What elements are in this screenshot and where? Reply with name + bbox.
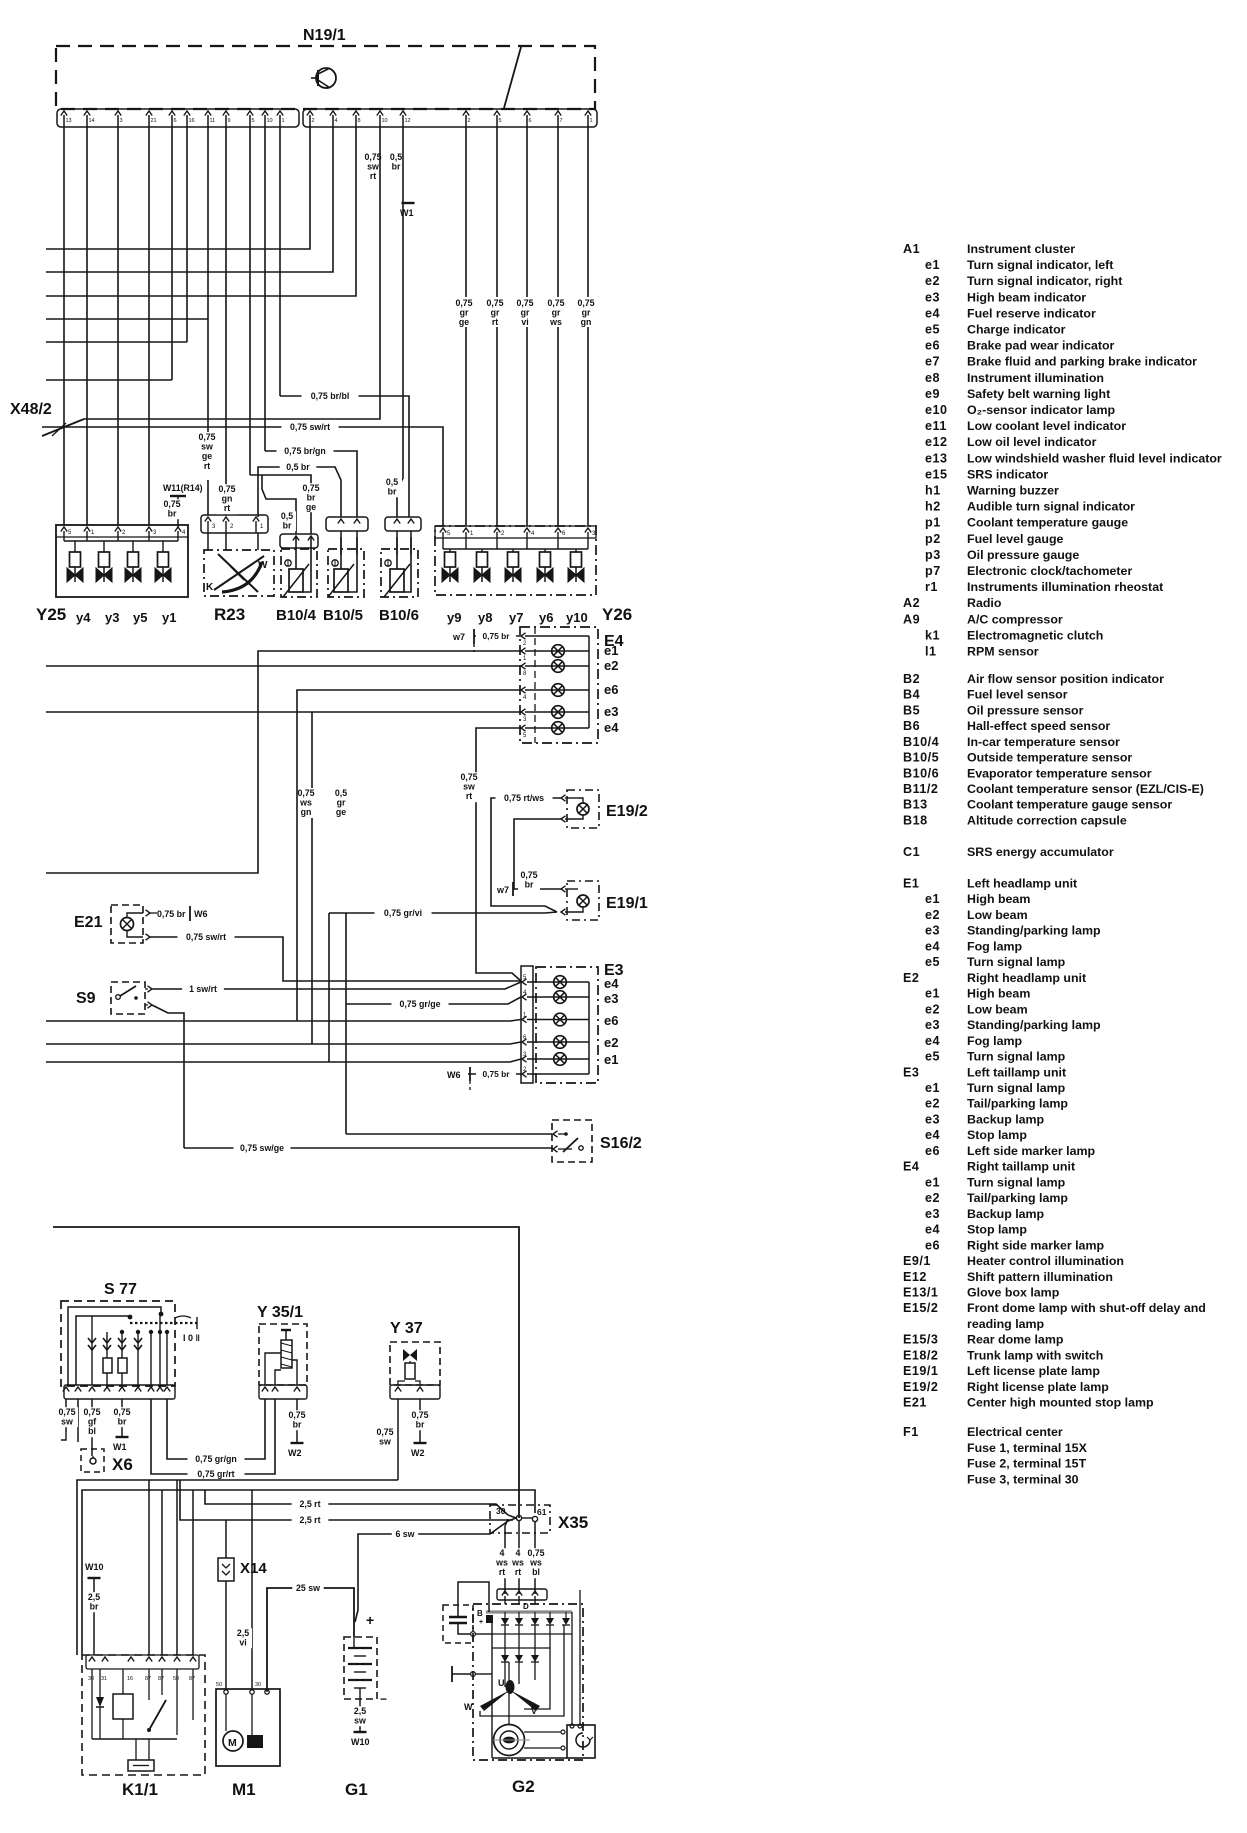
E3 pin 1 row [522, 1016, 527, 1022]
svg-text:Rear dome lamp: Rear dome lamp [967, 1333, 1064, 1347]
svg-text:B10/4: B10/4 [276, 607, 317, 624]
svg-text:0,75: 0,75 [527, 1548, 544, 1558]
N19/1 strip B pin 12 [400, 111, 406, 116]
svg-text:Shift pattern illumination: Shift pattern illumination [967, 1270, 1113, 1284]
svg-text:5: 5 [499, 118, 502, 124]
B10/5 connector [326, 517, 368, 531]
svg-text:Fuse 3, terminal 30: Fuse 3, terminal 30 [967, 1472, 1079, 1486]
wire strip A pin3 to Y25 pin 2 [117, 127, 119, 525]
E4 pin 8 row [521, 663, 526, 669]
svg-text:0,75: 0,75 [547, 298, 564, 308]
svg-text:sw: sw [367, 162, 379, 172]
wire 2,5 rt upper [205, 1490, 508, 1515]
N19/1 strip A pin 6 [169, 111, 175, 116]
wire strip A pin11 to bus y396 [279, 127, 281, 396]
wire strip A pin2 to Y25 pin 1 [86, 127, 88, 525]
svg-text:e1: e1 [925, 258, 940, 272]
svg-text:2,5: 2,5 [88, 1592, 100, 1602]
svg-text:Coolant temperature sensor (EZ: Coolant temperature sensor (EZL/CIS-E) [967, 782, 1204, 796]
svg-text:2,5 rt: 2,5 rt [299, 1515, 320, 1525]
Y25 pin 3 [146, 527, 152, 532]
svg-text:e3: e3 [604, 704, 618, 719]
svg-text:0,75: 0,75 [113, 1407, 130, 1417]
svg-text:e2: e2 [925, 1097, 940, 1111]
svg-text:rt: rt [224, 503, 230, 513]
svg-text:E2: E2 [903, 971, 919, 985]
wire to E3 e6 from left [46, 1020, 521, 1022]
svg-text:l1: l1 [925, 645, 937, 659]
svg-text:B6: B6 [903, 719, 920, 733]
svg-text:0,5: 0,5 [386, 477, 398, 487]
svg-text:E9/1: E9/1 [903, 1254, 931, 1268]
K1/1 fuse element [128, 1760, 154, 1771]
Y35/1 connector row [259, 1385, 307, 1399]
wire strip A pin10 to bus y451 [264, 127, 266, 451]
svg-text:Front dome lamp with shut-off: Front dome lamp with shut-off delay and [967, 1301, 1206, 1315]
svg-text:F1: F1 [903, 1425, 919, 1439]
svg-text:Electromagnetic clutch: Electromagnetic clutch [967, 628, 1103, 642]
svg-text:X48/2: X48/2 [10, 401, 52, 418]
svg-text:SRS indicator: SRS indicator [967, 467, 1048, 481]
wire 0,75 gr rt from strip B to Y26 [496, 127, 498, 526]
svg-text:Standing/parking lamp: Standing/parking lamp [967, 924, 1101, 938]
svg-text:E19/1: E19/1 [606, 895, 648, 912]
svg-text:6: 6 [529, 118, 532, 124]
E21 pin1 ground stub 0,75br W6 [127, 913, 143, 918]
svg-text:e12: e12 [925, 435, 948, 449]
svg-text:61: 61 [537, 1507, 547, 1517]
Y26 pin 3 [585, 528, 591, 533]
svg-text:0,75 gr/ge: 0,75 gr/ge [399, 999, 440, 1009]
S9 switch symbol [116, 995, 121, 1000]
svg-text:B10/6: B10/6 [903, 766, 939, 780]
svg-text:e2: e2 [925, 1191, 940, 1205]
svg-text:W1: W1 [400, 208, 414, 218]
wire 25 sw from M1 terminal 30 to battery plus [267, 1588, 354, 1689]
G2 D- wires to regulator [571, 1612, 573, 1725]
svg-text:y3: y3 [105, 610, 119, 625]
svg-text:Air flow sensor position indic: Air flow sensor position indicator [967, 672, 1164, 686]
svg-text:Radio: Radio [967, 596, 1002, 610]
E3 ground stub W6 0,75 br [468, 1073, 521, 1075]
svg-text:e5: e5 [925, 323, 940, 337]
svg-text:Hall-effect speed sensor: Hall-effect speed sensor [967, 719, 1110, 733]
E3 left taillamp dash-dot box [536, 967, 598, 1083]
bus wire y1480 from x77 to Y37 [77, 1480, 398, 1655]
svg-text:Fuel level gauge: Fuel level gauge [967, 532, 1064, 546]
battery G1 ground wire 2,5 sw W10 [359, 1699, 361, 1732]
wire 0,75 gr/vi to E19/1 pin2 [329, 912, 545, 914]
E4 right bus [588, 636, 590, 728]
svg-text:e4: e4 [604, 976, 619, 991]
diagonal partition line inside N19/1 [504, 47, 521, 108]
svg-text:Brake pad wear indicator: Brake pad wear indicator [967, 339, 1115, 353]
svg-text:e6: e6 [604, 1013, 618, 1028]
wire 0,75 rt/ws loop feeding E19 lamps [491, 798, 561, 912]
G2 connector bracket [497, 1589, 547, 1600]
Y26 pin 2 [494, 528, 500, 533]
svg-text:br: br [388, 487, 397, 497]
svg-text:G2: G2 [512, 1777, 535, 1796]
svg-text:sw: sw [201, 442, 213, 452]
svg-text:Trunk lamp with switch: Trunk lamp with switch [967, 1348, 1103, 1362]
svg-text:Left taillamp unit: Left taillamp unit [967, 1065, 1066, 1079]
E19/1 left license plate lamp box [567, 881, 599, 920]
svg-text:e2: e2 [925, 274, 940, 288]
svg-text:e1: e1 [925, 987, 940, 1001]
svg-text:87: 87 [145, 1676, 151, 1682]
svg-text:−: − [380, 1692, 387, 1706]
S16/2 switch box [552, 1120, 592, 1162]
svg-text:Heater control illumination: Heater control illumination [967, 1254, 1124, 1268]
E3 lamp row y1059 [554, 1053, 567, 1066]
svg-text:2,5 rt: 2,5 rt [299, 1499, 320, 1509]
E4 pin 3 row [521, 709, 526, 715]
svg-text:Safety belt warning light: Safety belt warning light [967, 387, 1110, 401]
svg-text:w7: w7 [452, 632, 465, 642]
wire to E4 e1 from R23 via x258 [46, 651, 521, 873]
Y37 pin1 wire 0,75 sw down to bus [397, 1399, 399, 1480]
svg-text:D: D [523, 1602, 529, 1611]
wire strip A pin1 to Y25 pin 5 [63, 127, 65, 525]
G2 capacitor box [443, 1605, 473, 1643]
svg-text:E13/1: E13/1 [903, 1286, 938, 1300]
svg-text:gn: gn [301, 807, 312, 817]
valve block Y26 box [435, 526, 596, 595]
wire label 0,75 sw rt [459, 772, 479, 802]
svg-text:A/C compressor: A/C compressor [967, 612, 1063, 626]
svg-text:W: W [258, 560, 268, 571]
B10/4 connector [280, 534, 318, 548]
svg-text:br: br [90, 1602, 99, 1612]
svg-text:vi: vi [239, 1638, 246, 1648]
K1/1 relay dashed box [82, 1655, 205, 1775]
svg-text:e1: e1 [604, 1052, 618, 1067]
svg-text:0,75 sw/ge: 0,75 sw/ge [240, 1143, 284, 1153]
svg-text:+: + [479, 1619, 483, 1626]
svg-text:9: 9 [228, 118, 231, 124]
svg-text:e6: e6 [925, 1144, 940, 1158]
svg-text:e6: e6 [604, 682, 618, 697]
G2 ground stub [451, 1666, 453, 1682]
svg-text:High beam: High beam [967, 892, 1030, 906]
wire 0,5 br from strip B pin5 through ground W1 to B10/6 [397, 127, 403, 517]
svg-text:gf: gf [88, 1417, 96, 1427]
svg-text:e15: e15 [925, 467, 948, 481]
svg-text:0,75: 0,75 [302, 483, 319, 493]
N19/1 strip B pin 2 [307, 111, 313, 116]
svg-text:p3: p3 [925, 548, 941, 562]
svg-text:B10/5: B10/5 [323, 607, 363, 624]
svg-text:0,75 gr/rt: 0,75 gr/rt [197, 1469, 234, 1479]
svg-text:Low oil level indicator: Low oil level indicator [967, 435, 1097, 449]
wire 0,75 br/bl from strip A pin11 to B10/6 right pin [280, 396, 409, 517]
Y25 pin 1 [84, 527, 90, 532]
wire label 0,75 gn rt [216, 484, 238, 514]
Y25 solenoid valve 4 [162, 541, 164, 552]
svg-text:br: br [392, 162, 401, 172]
svg-text:10: 10 [382, 118, 388, 124]
svg-text:Turn signal lamp: Turn signal lamp [967, 1081, 1066, 1095]
svg-text:e4: e4 [925, 939, 940, 953]
svg-text:0,75: 0,75 [486, 298, 503, 308]
S9 pin1 wire 1sw/rt to E3 e4 [148, 986, 153, 992]
wire 0,5 br from R23 pin3 to B10/5 left pin [258, 467, 341, 517]
svg-text:Charge indicator: Charge indicator [967, 323, 1066, 337]
svg-text:1: 1 [282, 118, 285, 124]
svg-text:30: 30 [88, 1676, 94, 1682]
svg-text:0,75: 0,75 [364, 152, 381, 162]
wire strip A pin4 to Y25 pin 3 [148, 127, 150, 525]
svg-text:Audible turn signal indicator: Audible turn signal indicator [967, 500, 1135, 514]
svg-text:Right taillamp unit: Right taillamp unit [967, 1160, 1075, 1174]
Y26 pin 1 [463, 528, 469, 533]
M1 motor symbol [223, 1731, 243, 1751]
svg-text:A1: A1 [903, 242, 920, 256]
svg-text:ws: ws [511, 1558, 524, 1568]
B10/6 sensor box [381, 549, 418, 597]
E4 right taillamp dash-dot box [520, 627, 598, 743]
E21 lamp [121, 918, 134, 931]
svg-text:y6: y6 [539, 610, 553, 625]
svg-text:0,75: 0,75 [376, 1427, 393, 1437]
svg-text:0,75 br: 0,75 br [482, 1069, 510, 1079]
svg-text:Oil pressure sensor: Oil pressure sensor [967, 703, 1084, 717]
svg-text:0,75: 0,75 [83, 1407, 100, 1417]
B10/4 sensor box [281, 549, 317, 597]
svg-text:E19/1: E19/1 [903, 1364, 938, 1378]
wire to E4 e2 from left [46, 665, 521, 667]
svg-text:rt: rt [370, 171, 376, 181]
svg-text:87: 87 [189, 1676, 195, 1682]
svg-text:M: M [228, 1737, 237, 1749]
wire 0,75 gr gn from strip B to Y26 [587, 127, 589, 526]
G2 regulator box [567, 1725, 595, 1758]
svg-text:p1: p1 [925, 516, 941, 530]
svg-text:gr: gr [521, 308, 530, 318]
svg-text:B10/5: B10/5 [903, 751, 939, 765]
svg-text:0,75 sw/rt: 0,75 sw/rt [186, 932, 226, 942]
svg-text:rt: rt [204, 461, 210, 471]
svg-text:B13: B13 [903, 798, 928, 812]
vertical from gr/vi wire down to E3 e1 bus [328, 913, 330, 1062]
svg-text:Left license plate lamp: Left license plate lamp [967, 1364, 1100, 1378]
svg-text:Oil pressure gauge: Oil pressure gauge [967, 548, 1079, 562]
svg-text:0,75: 0,75 [288, 1410, 305, 1420]
svg-text:Electrical center: Electrical center [967, 1425, 1063, 1439]
svg-text:0,75: 0,75 [577, 298, 594, 308]
N19/1 strip A pin 14 [84, 111, 90, 116]
svg-text:rt: rt [466, 791, 472, 801]
svg-text:Low windshield washer fluid le: Low windshield washer fluid level indica… [967, 451, 1222, 465]
E4 pin 5 row [521, 725, 526, 731]
svg-text:E21: E21 [74, 914, 103, 931]
svg-text:Right license plate lamp: Right license plate lamp [967, 1380, 1109, 1394]
svg-text:e4: e4 [925, 1034, 940, 1048]
svg-text:Turn signal indicator, right: Turn signal indicator, right [967, 274, 1122, 288]
Y35/1 pin3 ground 0,75 br W2 [296, 1399, 298, 1443]
svg-text:bl: bl [532, 1567, 540, 1577]
svg-text:0,75 gr/vi: 0,75 gr/vi [384, 908, 422, 918]
wire strip A pin9 to bus y475 [249, 127, 251, 475]
svg-text:ge: ge [202, 451, 212, 461]
M1 pin terminals [224, 1690, 228, 1694]
G2 B+ terminal [486, 1615, 493, 1623]
svg-text:sw: sw [463, 782, 475, 792]
E3 left taillamp connector strip [521, 966, 533, 1083]
svg-text:Warning buzzer: Warning buzzer [967, 484, 1059, 498]
svg-text:X35: X35 [558, 1513, 588, 1532]
svg-text:Standing/parking lamp: Standing/parking lamp [967, 1018, 1101, 1032]
svg-text:0,5: 0,5 [281, 511, 293, 521]
wire strip A pin5 down to bus y380 [171, 127, 173, 380]
svg-text:U: U [498, 1678, 505, 1688]
N19/1 strip A pin 5 [247, 111, 253, 116]
svg-text:br: br [168, 509, 177, 519]
svg-text:e5: e5 [925, 1050, 940, 1064]
wire label 0,5 br at B10/6 [382, 477, 402, 497]
svg-text:h2: h2 [925, 500, 941, 514]
connector X14 [225, 1520, 227, 1558]
svg-text:0,5: 0,5 [335, 788, 347, 798]
svg-text:3: 3 [120, 118, 123, 124]
svg-text:e5: e5 [925, 955, 940, 969]
S77 resistor 1 [103, 1358, 112, 1373]
stub W11(R14) 0,75 br above Y25 pin 4 [177, 496, 179, 527]
svg-text:e1: e1 [925, 1081, 940, 1095]
connector strip B of N19/1 [303, 109, 597, 127]
S77 actuator dotted line [130, 1322, 197, 1324]
svg-text:y7: y7 [509, 610, 523, 625]
svg-text:Left headlamp unit: Left headlamp unit [967, 877, 1077, 891]
svg-text:e3: e3 [925, 1207, 940, 1221]
svg-text:gr: gr [552, 308, 561, 318]
svg-text:e4: e4 [925, 306, 940, 320]
wire 0,75 br to ground W1 [121, 1399, 123, 1437]
svg-text:sw: sw [61, 1417, 73, 1427]
svg-text:Right side marker lamp: Right side marker lamp [967, 1238, 1104, 1252]
svg-text:W2: W2 [411, 1448, 425, 1458]
E3 pin 4 row [522, 994, 527, 1000]
X14 wire down to M1 [225, 1581, 227, 1689]
S77 internal frame wires [68, 1307, 161, 1385]
Y25 solenoid valve 2 [103, 541, 105, 552]
svg-text:rt: rt [515, 1567, 521, 1577]
svg-text:Fog lamp: Fog lamp [967, 939, 1022, 953]
svg-text:gn: gn [581, 317, 592, 327]
B10/6 connector [385, 517, 421, 531]
ground W1 on wire [402, 202, 415, 204]
wire to X6 [91, 1399, 93, 1456]
svg-text:2: 2 [468, 118, 471, 124]
svg-text:e6: e6 [925, 1238, 940, 1252]
svg-text:E18/2: E18/2 [903, 1348, 938, 1362]
wire 2,5 rt lower [180, 1480, 513, 1520]
svg-text:0,5 br: 0,5 br [286, 462, 310, 472]
svg-text:ws: ws [549, 317, 562, 327]
svg-text:2,5: 2,5 [354, 1706, 366, 1716]
svg-text:ge: ge [306, 502, 316, 512]
svg-text:br: br [283, 521, 292, 531]
svg-text:Backup lamp: Backup lamp [967, 1113, 1045, 1127]
wire strip A pin7 to R23 pin1 [207, 127, 209, 515]
svg-text:sw: sw [379, 1437, 391, 1447]
N19/1 strip A pin 10 [262, 111, 268, 116]
G2 stator star point U V W [506, 1680, 515, 1694]
E4 lamp row y651 [552, 645, 565, 658]
wire from strip A pin9 to B10/4 right pin [250, 475, 311, 534]
N19/1 strip A pin 1 [277, 111, 283, 116]
svg-text:0,75 rt/ws: 0,75 rt/ws [504, 793, 544, 803]
svg-text:SRS energy accumulator: SRS energy accumulator [967, 845, 1114, 859]
svg-text:B10/6: B10/6 [379, 607, 419, 624]
svg-text:A9: A9 [903, 612, 920, 626]
E4 lamp row y690 [552, 684, 565, 697]
E19/2 lamp [577, 803, 589, 815]
svg-text:50: 50 [173, 1676, 179, 1682]
M1 solenoid block [247, 1735, 263, 1748]
svg-text:Coolant temperature gauge: Coolant temperature gauge [967, 516, 1128, 530]
svg-text:S16/2: S16/2 [600, 1135, 642, 1152]
Y37 valve symbol [403, 1349, 417, 1361]
svg-text:25 sw: 25 sw [296, 1583, 320, 1593]
svg-text:e1: e1 [925, 1175, 940, 1189]
svg-text:ws: ws [529, 1558, 542, 1568]
wire strip B pin1 down, turns left at y249 [46, 127, 310, 249]
svg-text:Right headlamp unit: Right headlamp unit [967, 971, 1086, 985]
svg-text:br: br [525, 880, 534, 890]
N19/1 strip B pin 8 [353, 111, 359, 116]
svg-text:N19/1: N19/1 [303, 27, 346, 44]
svg-text:16: 16 [127, 1676, 133, 1682]
svg-text:R23: R23 [214, 605, 245, 624]
wire to S16/2 pin1 from x346 [346, 1133, 552, 1135]
wire to E4 e3 from left [46, 711, 521, 713]
svg-text:1: 1 [590, 118, 593, 124]
wire strip A pin8 to R23 pin2 [225, 127, 227, 515]
Y25 pin 4 [175, 527, 181, 532]
svg-text:M1: M1 [232, 1780, 256, 1799]
N19/1 strip A pin 9 [223, 111, 229, 116]
svg-text:0,75: 0,75 [520, 870, 537, 880]
bus wire y1490 from x82 to X35 pin61 [82, 1490, 535, 1655]
svg-text:ge: ge [336, 807, 346, 817]
svg-text:2,5: 2,5 [237, 1628, 249, 1638]
N19/1 strip B pin 10 [377, 111, 383, 116]
wire 2,5 vi from M1 up to bus [251, 1490, 253, 1689]
svg-text:K: K [206, 582, 214, 593]
S77 output stubs [65, 1399, 67, 1432]
svg-text:1 sw/rt: 1 sw/rt [189, 984, 217, 994]
wire label 0,5 br [278, 511, 296, 531]
svg-text:W10: W10 [85, 1562, 104, 1572]
wire label 0,75 sw ge rt [198, 432, 219, 480]
K1/1 internals: contact [148, 1669, 150, 1700]
N19/1 strip B pin 2 [463, 111, 469, 116]
G2 phase loops [524, 1625, 550, 1709]
svg-text:0,75: 0,75 [198, 432, 215, 442]
svg-text:e13: e13 [925, 451, 948, 465]
svg-text:w7: w7 [496, 885, 509, 895]
svg-text:e3: e3 [925, 1113, 940, 1127]
svg-text:p2: p2 [925, 532, 941, 546]
svg-text:Turn signal lamp: Turn signal lamp [967, 955, 1066, 969]
control unit N19/1 dashed box [56, 46, 595, 109]
svg-text:Instrument cluster: Instrument cluster [967, 242, 1075, 256]
svg-text:e10: e10 [925, 403, 948, 417]
Y35/1 solenoid symbol [281, 1340, 292, 1368]
E3 pin 2 row [522, 1071, 527, 1077]
